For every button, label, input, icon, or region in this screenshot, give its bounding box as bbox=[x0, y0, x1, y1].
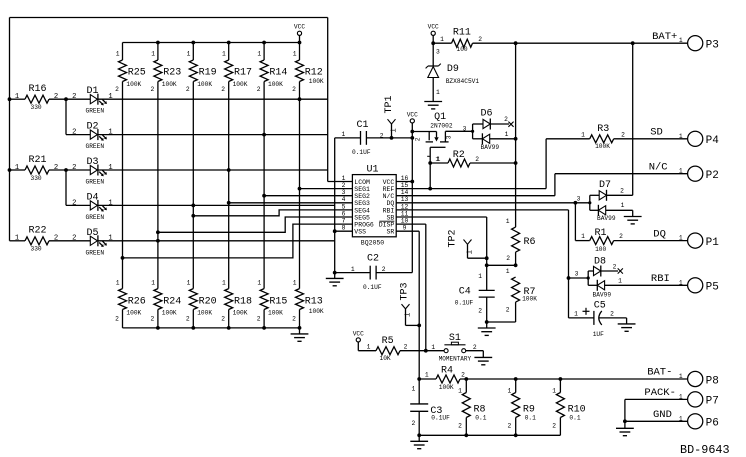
svg-text:R6: R6 bbox=[524, 237, 536, 248]
svg-text:1: 1 bbox=[679, 235, 683, 242]
svg-text:1: 1 bbox=[15, 235, 19, 243]
svg-text:100K: 100K bbox=[522, 295, 537, 302]
svg-text:1: 1 bbox=[108, 235, 112, 243]
svg-text:P7: P7 bbox=[706, 396, 719, 408]
label BD-9643 bbox=[680, 443, 730, 457]
svg-text:330: 330 bbox=[31, 246, 42, 253]
svg-text:1: 1 bbox=[679, 37, 683, 44]
svg-text:VCC: VCC bbox=[428, 24, 439, 31]
svg-text:13: 13 bbox=[401, 196, 409, 203]
svg-text:2: 2 bbox=[382, 266, 386, 273]
ground matrix bank bbox=[291, 328, 309, 341]
svg-text:6: 6 bbox=[342, 210, 346, 217]
wire D2 row bbox=[98, 134, 328, 136]
svg-text:100K: 100K bbox=[233, 309, 248, 316]
svg-text:2: 2 bbox=[504, 116, 508, 123]
svg-text:RBI: RBI bbox=[383, 207, 395, 214]
svg-text:100K: 100K bbox=[162, 81, 177, 88]
svg-text:3: 3 bbox=[342, 189, 346, 196]
svg-text:R11: R11 bbox=[453, 28, 471, 39]
resistor R9 bbox=[508, 377, 537, 437]
svg-text:SB: SB bbox=[386, 214, 394, 221]
svg-text:3: 3 bbox=[463, 125, 467, 132]
node LED row-column junction bbox=[227, 168, 231, 172]
svg-text:BAT+: BAT+ bbox=[652, 31, 677, 43]
svg-text:1: 1 bbox=[15, 164, 19, 172]
svg-text:1: 1 bbox=[618, 278, 622, 285]
svg-text:5: 5 bbox=[342, 203, 346, 210]
svg-text:2N7002: 2N7002 bbox=[430, 123, 453, 130]
svg-text:2: 2 bbox=[506, 307, 510, 314]
svg-text:BQ2050: BQ2050 bbox=[361, 239, 385, 246]
svg-text:DISP: DISP bbox=[379, 222, 395, 229]
resistor R15 bbox=[257, 280, 288, 328]
svg-text:100K: 100K bbox=[309, 308, 324, 315]
resistor R12 bbox=[292, 43, 324, 289]
resistor R20 bbox=[186, 280, 217, 328]
svg-text:C2: C2 bbox=[367, 254, 379, 265]
resistor R17 bbox=[221, 43, 252, 289]
svg-text:1: 1 bbox=[425, 372, 429, 379]
svg-text:D7: D7 bbox=[599, 180, 611, 191]
svg-text:P8: P8 bbox=[706, 375, 719, 387]
svg-text:1: 1 bbox=[15, 93, 19, 101]
svg-text:GND: GND bbox=[653, 409, 672, 421]
svg-text:1: 1 bbox=[108, 129, 112, 137]
svg-text:2: 2 bbox=[72, 164, 76, 172]
svg-text:2: 2 bbox=[54, 164, 58, 172]
capacitor C2 bbox=[333, 254, 412, 291]
svg-text:1: 1 bbox=[293, 280, 297, 287]
svg-text:R1: R1 bbox=[595, 228, 607, 239]
svg-text:2: 2 bbox=[54, 235, 58, 243]
svg-text:SEG5: SEG5 bbox=[354, 214, 370, 221]
svg-text:R13: R13 bbox=[305, 296, 323, 307]
svg-text:2: 2 bbox=[619, 233, 623, 240]
svg-text:1: 1 bbox=[436, 89, 440, 96]
resistor R3 bbox=[546, 124, 688, 150]
wire DQ net bbox=[396, 201, 590, 205]
svg-text:4: 4 bbox=[342, 196, 346, 203]
svg-text:LCOM: LCOM bbox=[354, 179, 370, 186]
svg-text:VCC: VCC bbox=[294, 24, 305, 31]
resistor R22 bbox=[10, 226, 91, 253]
switch S1 bbox=[431, 333, 483, 363]
svg-text:2: 2 bbox=[72, 235, 76, 243]
svg-text:2: 2 bbox=[151, 315, 155, 322]
svg-text:RBI: RBI bbox=[651, 273, 670, 285]
svg-text:3: 3 bbox=[575, 270, 579, 277]
svg-text:1: 1 bbox=[116, 50, 120, 57]
wire sense ground rail bbox=[417, 433, 560, 437]
diode D7 bbox=[577, 180, 633, 222]
wire REF net bbox=[396, 139, 546, 189]
ground D7 bbox=[624, 210, 642, 224]
svg-text:TP1: TP1 bbox=[384, 95, 395, 113]
wire LCOM right vertical to pin 1 bbox=[328, 18, 353, 182]
svg-text:1: 1 bbox=[431, 344, 435, 351]
svg-text:BAV99: BAV99 bbox=[597, 215, 616, 222]
resistor R2 bbox=[428, 150, 515, 167]
svg-text:1: 1 bbox=[390, 128, 398, 132]
svg-text:2: 2 bbox=[115, 315, 119, 322]
svg-text:TP3: TP3 bbox=[399, 282, 410, 300]
wire DISP net bbox=[396, 224, 427, 353]
svg-text:2: 2 bbox=[72, 199, 76, 207]
svg-text:2: 2 bbox=[257, 86, 261, 93]
svg-text:1: 1 bbox=[412, 386, 416, 393]
capacitor C4 bbox=[455, 273, 516, 324]
svg-text:D3: D3 bbox=[87, 157, 99, 168]
connector P1 DQ bbox=[653, 228, 719, 249]
svg-text:R16: R16 bbox=[29, 84, 47, 95]
svg-text:PACK-: PACK- bbox=[644, 387, 676, 399]
transistor Q1 bbox=[412, 112, 474, 163]
svg-text:1: 1 bbox=[506, 218, 510, 225]
wire VSS pin wire bbox=[333, 229, 353, 233]
svg-text:2: 2 bbox=[475, 156, 479, 163]
svg-text:D4: D4 bbox=[87, 192, 99, 203]
node rail-R13 bbox=[298, 326, 302, 330]
svg-text:GREEN: GREEN bbox=[86, 143, 105, 150]
diode D9 zener bbox=[426, 43, 480, 101]
node rail-R24 bbox=[156, 326, 160, 330]
svg-text:R12: R12 bbox=[305, 67, 323, 78]
resistor R7 bbox=[506, 268, 537, 322]
wire D1 row bbox=[98, 98, 328, 100]
svg-text:2: 2 bbox=[414, 137, 421, 141]
svg-text:2: 2 bbox=[404, 343, 408, 350]
svg-text:1: 1 bbox=[437, 156, 441, 163]
svg-text:BAT-: BAT- bbox=[647, 367, 672, 379]
diode D6 bbox=[463, 109, 516, 151]
wire SEG1 net bbox=[298, 187, 353, 191]
svg-text:2: 2 bbox=[221, 315, 225, 322]
svg-text:15: 15 bbox=[401, 182, 409, 189]
node rail-R18 bbox=[227, 326, 231, 330]
svg-text:1: 1 bbox=[466, 250, 474, 254]
op-amp U1 BQ2050 bbox=[342, 164, 409, 246]
svg-text:MOMENTARY: MOMENTARY bbox=[439, 356, 472, 363]
svg-text:GREEN: GREEN bbox=[86, 249, 105, 256]
node bus-R17 bbox=[227, 41, 231, 45]
svg-text:D1: D1 bbox=[87, 86, 99, 97]
svg-text:7: 7 bbox=[342, 218, 346, 225]
svg-text:D2: D2 bbox=[87, 122, 99, 133]
svg-text:BD-9643: BD-9643 bbox=[680, 443, 730, 457]
svg-text:3: 3 bbox=[436, 48, 440, 55]
ground C5 bbox=[618, 318, 636, 331]
svg-text:R26: R26 bbox=[128, 296, 146, 307]
svg-text:100K: 100K bbox=[126, 81, 141, 88]
svg-text:P3: P3 bbox=[706, 40, 719, 52]
svg-text:R2: R2 bbox=[453, 150, 465, 161]
svg-text:R17: R17 bbox=[234, 67, 252, 78]
svg-text:R19: R19 bbox=[199, 67, 217, 78]
svg-text:SEG4: SEG4 bbox=[354, 207, 370, 214]
node R16-D1/D2 junction bbox=[64, 97, 68, 101]
svg-text:0.1UF: 0.1UF bbox=[431, 414, 450, 421]
svg-text:2: 2 bbox=[54, 93, 58, 101]
svg-text:SEG3: SEG3 bbox=[354, 200, 370, 207]
svg-text:1: 1 bbox=[116, 280, 120, 287]
wire RBI net bbox=[396, 210, 588, 318]
svg-text:BZX84C5V1: BZX84C5V1 bbox=[446, 78, 480, 85]
svg-text:2: 2 bbox=[610, 310, 614, 317]
svg-text:2: 2 bbox=[458, 423, 462, 430]
power VCC matrix bbox=[294, 24, 305, 43]
svg-text:R3: R3 bbox=[597, 124, 609, 135]
svg-text:1: 1 bbox=[581, 131, 585, 138]
svg-text:D6: D6 bbox=[481, 109, 493, 120]
wire SEG2 net bbox=[262, 194, 352, 198]
svg-text:1: 1 bbox=[342, 131, 346, 138]
svg-text:100K: 100K bbox=[595, 143, 610, 150]
svg-text:D5: D5 bbox=[87, 228, 99, 239]
wire Q1 gate to REF bbox=[428, 163, 432, 191]
svg-text:R15: R15 bbox=[269, 296, 287, 307]
svg-text:100K: 100K bbox=[439, 384, 454, 391]
resistor R16 bbox=[10, 84, 91, 111]
ground C4 bbox=[486, 322, 488, 328]
resistor R26 bbox=[115, 280, 146, 328]
wire LCOM top border bbox=[10, 17, 328, 19]
svg-text:R4: R4 bbox=[441, 365, 453, 376]
svg-text:1: 1 bbox=[508, 387, 512, 394]
svg-text:2: 2 bbox=[72, 93, 76, 101]
resistor R13 bbox=[292, 280, 324, 328]
svg-text:1: 1 bbox=[440, 36, 444, 43]
svg-text:1: 1 bbox=[458, 387, 462, 394]
svg-text:C5: C5 bbox=[594, 301, 606, 312]
power VCC R5 bbox=[353, 330, 376, 350]
resistor R1 bbox=[575, 203, 687, 253]
svg-text:100: 100 bbox=[457, 46, 468, 53]
svg-text:1: 1 bbox=[108, 93, 112, 101]
resistor R5 bbox=[367, 336, 444, 362]
svg-text:1: 1 bbox=[679, 168, 683, 175]
svg-text:D8: D8 bbox=[594, 256, 606, 267]
svg-text:2: 2 bbox=[508, 423, 512, 430]
svg-text:2: 2 bbox=[478, 36, 482, 43]
svg-text:1: 1 bbox=[151, 280, 155, 287]
node LED row-column junction bbox=[191, 204, 195, 208]
led D4 bbox=[72, 192, 113, 221]
resistor R18 bbox=[221, 280, 252, 328]
svg-text:2: 2 bbox=[292, 315, 296, 322]
node rail-R20 bbox=[191, 326, 195, 330]
svg-text:R24: R24 bbox=[163, 296, 181, 307]
svg-text:P1: P1 bbox=[706, 237, 720, 249]
resistor R14 bbox=[257, 43, 288, 289]
svg-text:GREEN: GREEN bbox=[86, 214, 105, 221]
node rail-R15 bbox=[262, 326, 266, 330]
led D2 bbox=[72, 122, 113, 151]
svg-text:10: 10 bbox=[401, 218, 409, 225]
svg-text:1: 1 bbox=[151, 50, 155, 57]
connector P6 GND bbox=[625, 409, 719, 430]
svg-text:VCC: VCC bbox=[407, 111, 418, 118]
svg-text:1: 1 bbox=[552, 387, 556, 394]
svg-text:0.1UF: 0.1UF bbox=[363, 284, 382, 291]
svg-text:2: 2 bbox=[461, 372, 465, 379]
wire N/C net bbox=[396, 174, 687, 196]
svg-text:SR: SR bbox=[386, 229, 394, 236]
wire SB net bbox=[396, 217, 515, 290]
svg-text:100K: 100K bbox=[126, 309, 141, 316]
led D5 bbox=[72, 228, 113, 256]
svg-text:2: 2 bbox=[621, 131, 625, 138]
wire pin16 stub bbox=[396, 181, 412, 183]
svg-text:1: 1 bbox=[679, 133, 683, 140]
svg-text:TP2: TP2 bbox=[448, 229, 459, 247]
svg-text:2: 2 bbox=[292, 86, 296, 93]
svg-text:U1: U1 bbox=[367, 164, 379, 175]
ground C4 bars bbox=[478, 328, 496, 335]
svg-text:100K: 100K bbox=[197, 81, 212, 88]
node LED row-column junction bbox=[298, 97, 302, 101]
wire VCC down to C2 bbox=[411, 182, 413, 273]
wire ground rail bottom bank bbox=[123, 327, 300, 329]
test point TP2 bbox=[448, 229, 487, 258]
svg-text:2: 2 bbox=[221, 86, 225, 93]
svg-text:2: 2 bbox=[552, 423, 556, 430]
svg-text:2: 2 bbox=[151, 86, 155, 93]
svg-text:1: 1 bbox=[257, 50, 261, 57]
svg-text:2: 2 bbox=[506, 255, 510, 262]
svg-text:2: 2 bbox=[186, 315, 190, 322]
svg-text:SD: SD bbox=[650, 127, 663, 139]
svg-text:N/C: N/C bbox=[649, 161, 668, 173]
svg-text:100K: 100K bbox=[162, 309, 177, 316]
resistor R11 bbox=[433, 28, 687, 53]
svg-text:16: 16 bbox=[401, 175, 409, 182]
svg-text:1: 1 bbox=[679, 373, 683, 380]
svg-text:2: 2 bbox=[342, 182, 346, 189]
svg-text:100K: 100K bbox=[233, 81, 248, 88]
svg-text:3: 3 bbox=[446, 135, 453, 139]
svg-text:0.1: 0.1 bbox=[569, 415, 580, 422]
svg-text:P4: P4 bbox=[706, 135, 720, 147]
svg-text:GREEN: GREEN bbox=[86, 108, 105, 115]
svg-text:R18: R18 bbox=[234, 296, 252, 307]
connector P7 PACK- bbox=[623, 387, 719, 423]
svg-text:1: 1 bbox=[108, 199, 112, 207]
svg-text:1: 1 bbox=[478, 273, 482, 280]
svg-text:1UF: 1UF bbox=[593, 331, 604, 338]
svg-text:2: 2 bbox=[72, 129, 76, 137]
svg-text:1: 1 bbox=[187, 50, 191, 57]
svg-text:P6: P6 bbox=[706, 418, 719, 430]
resistor R19 bbox=[186, 43, 217, 289]
svg-text:1: 1 bbox=[222, 280, 226, 287]
node R21-D3/D4 junction bbox=[64, 168, 68, 172]
svg-text:2: 2 bbox=[186, 86, 190, 93]
connector P3 BAT+ bbox=[652, 31, 719, 52]
svg-text:0.1UF: 0.1UF bbox=[352, 149, 371, 156]
svg-text:1: 1 bbox=[506, 268, 510, 275]
svg-text:1: 1 bbox=[404, 313, 412, 317]
ground S1 bbox=[474, 357, 492, 364]
svg-text:2: 2 bbox=[412, 420, 416, 427]
resistor R25 bbox=[115, 43, 146, 289]
svg-text:1: 1 bbox=[621, 202, 625, 209]
svg-text:SEG2: SEG2 bbox=[354, 193, 370, 200]
svg-text:C4: C4 bbox=[459, 287, 471, 298]
svg-text:VCC: VCC bbox=[383, 179, 395, 186]
power VCC R11 bbox=[428, 24, 439, 45]
wire D4 row bbox=[98, 204, 335, 206]
svg-text:1: 1 bbox=[257, 280, 261, 287]
connector P5 RBI bbox=[651, 273, 719, 294]
diode D8 bbox=[575, 256, 688, 298]
resistor R21 bbox=[10, 155, 91, 182]
node LED row-column junction bbox=[262, 133, 266, 137]
wire SEG3 net bbox=[227, 201, 353, 205]
wire VCC bus top bbox=[123, 42, 300, 44]
svg-text:1: 1 bbox=[505, 131, 509, 138]
power VCC Q1 regulator bbox=[407, 111, 418, 183]
connector P8 BAT- bbox=[647, 367, 719, 388]
ground C3 bbox=[410, 435, 428, 448]
svg-text:100K: 100K bbox=[197, 309, 212, 316]
ground P6/P7 bbox=[616, 421, 634, 435]
resistor R24 bbox=[151, 280, 182, 328]
svg-text:SEG1: SEG1 bbox=[354, 186, 370, 193]
svg-text:GREEN: GREEN bbox=[86, 179, 105, 186]
svg-text:R20: R20 bbox=[199, 296, 217, 307]
svg-text:BAV99: BAV99 bbox=[593, 291, 612, 298]
svg-text:1: 1 bbox=[367, 343, 371, 350]
resistor R8 bbox=[458, 377, 487, 437]
connector P2 N/C bbox=[649, 161, 719, 182]
svg-text:1: 1 bbox=[342, 175, 346, 182]
led D1 bbox=[72, 86, 113, 115]
svg-text:1: 1 bbox=[351, 266, 355, 273]
svg-text:100K: 100K bbox=[309, 78, 324, 85]
svg-text:P2: P2 bbox=[706, 170, 719, 182]
svg-text:VSS: VSS bbox=[354, 229, 366, 236]
svg-text:2: 2 bbox=[620, 188, 624, 195]
node bus-R19 bbox=[191, 41, 195, 45]
node bus-R12 bbox=[298, 41, 302, 45]
wire SEG5 net bbox=[156, 217, 352, 234]
led D3 bbox=[72, 157, 113, 186]
node left feed R21 bbox=[8, 168, 12, 172]
svg-text:P5: P5 bbox=[706, 282, 719, 294]
resistor R10 bbox=[552, 377, 585, 435]
ground VSS/C2 bbox=[326, 273, 344, 286]
ground D9 bbox=[424, 102, 442, 109]
wire D3 row bbox=[98, 169, 328, 171]
svg-text:330: 330 bbox=[31, 175, 42, 182]
svg-text:REF: REF bbox=[383, 186, 395, 193]
capacitor C1 bbox=[335, 120, 413, 156]
resistor R6 bbox=[506, 218, 536, 267]
svg-text:330: 330 bbox=[31, 104, 42, 111]
svg-text:DQ: DQ bbox=[386, 200, 394, 207]
connector P4 SD bbox=[650, 127, 719, 148]
svg-text:100K: 100K bbox=[268, 81, 283, 88]
node LED row-column junction bbox=[156, 239, 160, 243]
node bus-R14 bbox=[262, 41, 266, 45]
svg-text:N/C: N/C bbox=[383, 193, 395, 200]
svg-text:PROG6: PROG6 bbox=[354, 222, 374, 229]
svg-text:1: 1 bbox=[222, 50, 226, 57]
svg-text:R14: R14 bbox=[269, 67, 287, 78]
wire SEG4 net bbox=[191, 210, 352, 218]
svg-text:C1: C1 bbox=[357, 120, 369, 131]
